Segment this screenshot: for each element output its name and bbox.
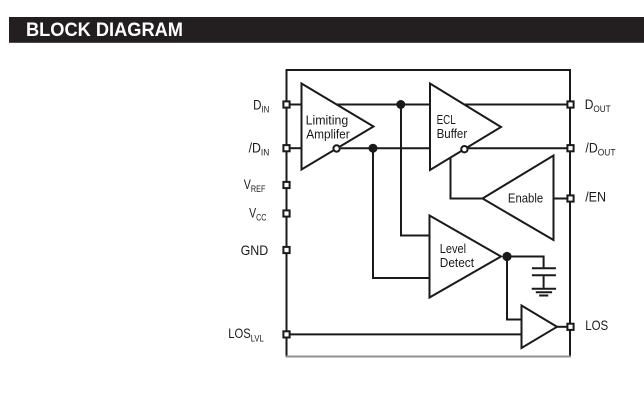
svg-text:Enable: Enable: [508, 191, 543, 206]
svg-text:/DOUT: /DOUT: [585, 140, 615, 159]
svg-text:DOUT: DOUT: [585, 96, 611, 115]
svg-text:/EN: /EN: [585, 189, 606, 205]
svg-text:LOS: LOS: [585, 317, 608, 333]
svg-text:Buffer: Buffer: [437, 126, 468, 141]
svg-text:Level: Level: [440, 241, 466, 256]
svg-text:ECL: ECL: [437, 112, 456, 127]
svg-text:LOSLVL: LOSLVL: [228, 325, 264, 344]
svg-text:VCC: VCC: [249, 205, 266, 224]
svg-text:VREF: VREF: [244, 176, 266, 195]
svg-text:Detect: Detect: [440, 255, 475, 270]
svg-text:Amplifer: Amplifer: [306, 127, 350, 142]
svg-text:GND: GND: [241, 242, 269, 258]
svg-text:BLOCK DIAGRAM: BLOCK DIAGRAM: [26, 19, 183, 41]
svg-text:/DIN: /DIN: [249, 140, 270, 159]
svg-text:Limiting: Limiting: [306, 112, 349, 127]
svg-text:DIN: DIN: [253, 97, 269, 116]
